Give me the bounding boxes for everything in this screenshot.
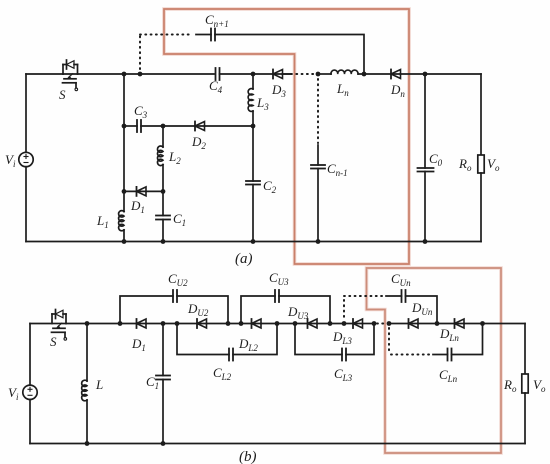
node bottom rail branch2 <box>161 239 166 244</box>
node at CU3 down leg <box>328 321 333 326</box>
wire: dotted gap on main rail <box>377 323 387 325</box>
inductor L1 <box>119 211 124 231</box>
C3 row: wire from branch1 <box>124 125 137 127</box>
wire: resistor to bottom rail (b) <box>524 393 526 444</box>
diode D1 row: wire <box>124 190 146 192</box>
capacitor Cn-1 <box>311 165 325 169</box>
branch 4 (a): dotted drop from junction <box>317 79 319 143</box>
capacitor CL3 <box>342 349 346 361</box>
capacitor C1 <box>156 216 170 220</box>
diode DL3 <box>353 319 363 328</box>
wire: L1 to bottom rail <box>123 230 125 242</box>
node at Cn+1 drop on top rail <box>362 72 367 77</box>
wire: top rail left segment (a) <box>26 73 63 75</box>
node at C0 branch top <box>423 72 428 77</box>
node at D1 tap <box>122 189 127 194</box>
branch 5 (a): C0 leg <box>424 74 426 168</box>
capacitor CL3 loop: dropper <box>295 324 342 355</box>
svg-text:L: L <box>95 377 103 392</box>
branch 2 (a): stub below C3 node <box>162 126 164 147</box>
wire: bottom rail (b) <box>30 443 525 445</box>
wire: C2 to bottom rail <box>252 185 254 242</box>
wire: solid stub into Cn+1 <box>196 34 211 36</box>
wire: C3 to L2 node <box>141 125 205 127</box>
wire: top rail Dn to right corner <box>401 73 482 75</box>
capacitor CUn <box>402 290 406 302</box>
node at L branch <box>85 321 90 326</box>
wire: CLn to up leg <box>452 324 483 355</box>
capacitor CU2 <box>173 290 177 302</box>
wire: CL2 to up leg <box>233 324 277 355</box>
diode D2 <box>195 122 205 131</box>
node bottom rail branch3 <box>251 239 256 244</box>
wire: stub into Cn-1 <box>317 145 319 165</box>
transistor S (b) <box>52 310 67 341</box>
diode DL2 <box>252 319 262 328</box>
wire: Cn-1 to bottom rail <box>317 169 319 242</box>
diode DLn <box>455 319 465 328</box>
wire: L to bottom rail <box>86 400 88 444</box>
capacitor CU3 <box>275 290 279 302</box>
wire: dotted continuation after D3 <box>291 73 315 75</box>
capacitor C2 <box>246 181 260 185</box>
red highlight box (b) <box>367 268 502 453</box>
wire: DLn to output corner <box>464 323 525 325</box>
wire: Cn+1 to top rail drop <box>215 35 364 75</box>
wire: dotted riser at node 344 <box>343 300 345 320</box>
diode Dn <box>391 70 401 79</box>
node at dotted riser <box>342 321 347 326</box>
diode D1 (a) <box>137 187 164 196</box>
wire: junction to DUn <box>389 323 418 325</box>
wire: bottom rail (a) <box>26 241 481 243</box>
voltage source Vi (b) <box>23 324 37 444</box>
capacitor CU2 loop: riser <box>120 296 173 324</box>
wire: CU3 to down leg <box>279 296 330 324</box>
node at CL2 dropper <box>175 321 180 326</box>
wire: main rail left (b) <box>30 323 51 325</box>
node bottom rail at L <box>85 441 90 446</box>
resistor Ro (b) <box>522 374 528 393</box>
inductor Ln <box>331 70 358 74</box>
inductor L <box>82 380 87 401</box>
svg-text:S: S <box>59 87 66 102</box>
wire: junction to Ln <box>318 73 331 75</box>
node on top rail at branch L3 <box>251 72 256 77</box>
wire: Ln to Dn with node at Cn+1 drop <box>358 73 400 75</box>
node on top rail at branch 1 <box>122 72 127 77</box>
capacitor Cn+1 <box>211 29 215 41</box>
svg-text:(a): (a) <box>235 251 253 267</box>
capacitor CLn <box>448 349 452 361</box>
wire: CUn to down leg <box>406 296 438 324</box>
node at CL2 right leg <box>275 321 280 326</box>
node junction dotted cell (a) <box>316 72 321 77</box>
inductor L branch (b): stub <box>86 324 88 382</box>
wire: DUn to DLn <box>418 323 464 325</box>
diode D3 <box>273 70 290 79</box>
wire: top rail C4 to D3 (a) <box>220 73 291 75</box>
wire: DU3 to DL3 <box>317 323 363 325</box>
wire: D1 to DU2 (b) <box>146 323 207 325</box>
node bottom rail at C1 (b) <box>161 441 166 446</box>
node at L2 top <box>161 124 166 129</box>
diode D1 (b) <box>137 319 147 328</box>
wire: DL2 to DU3 <box>261 323 317 325</box>
node at CU3 riser <box>239 321 244 326</box>
wire: C0 to bottom rail <box>424 172 426 242</box>
node bottom rail branch4 <box>316 239 321 244</box>
wire: resistor to bottom rail (a) <box>480 173 482 242</box>
node at CUn down leg <box>435 321 440 326</box>
capacitor C1 branch (b): stub <box>162 324 164 376</box>
node at CL3 dropper <box>293 321 298 326</box>
node at C1 branch (b) <box>161 321 166 326</box>
load leg (a): wire down to resistor <box>480 74 482 155</box>
inductor L3 <box>248 89 253 112</box>
node at D2 row <box>251 124 256 129</box>
wire: top rail from switch to C4 (a) <box>78 73 215 75</box>
voltage source Vi (a) <box>19 74 33 242</box>
node at CU2 riser <box>118 321 123 326</box>
branch 1 (a): wire from top rail down <box>123 74 125 212</box>
node bottom rail branch1 <box>122 239 127 244</box>
load leg (b): wire down to resistor <box>524 324 526 375</box>
capacitor CL2 <box>229 349 233 361</box>
resistor Ro (a) <box>478 155 484 173</box>
capacitor Cn+1 branch: dotted riser <box>139 35 141 70</box>
diode DUn <box>409 319 419 328</box>
capacitor C1 (b) <box>156 376 170 380</box>
wire: C1 to bottom rail (b) <box>162 380 164 444</box>
capacitor CL2 loop: dropper <box>177 324 229 355</box>
svg-text:(b): (b) <box>239 449 257 464</box>
wire: CLn bottom row solid <box>433 354 448 356</box>
wire: L2 to C1 <box>162 165 164 216</box>
branch 3 (a): from top rail down to L3 <box>252 74 254 89</box>
node at D1 right <box>161 189 166 194</box>
wire: dotted top row continuation <box>344 295 384 297</box>
node at CL3 right leg <box>372 321 377 326</box>
wire: CL3 to up leg <box>346 324 374 355</box>
node on top rail at Cn+1 tap <box>138 72 143 77</box>
capacitor C3 <box>137 120 141 132</box>
capacitor C0 <box>418 168 434 172</box>
red highlight box (a) <box>164 9 409 264</box>
wire: D2 to branch 3 <box>205 125 254 127</box>
node at CU2 down leg <box>226 321 231 326</box>
wire: L3 to C2 <box>252 111 254 181</box>
svg-text:S: S <box>50 334 57 349</box>
wire: main rail from switch to D1 (b) <box>66 323 146 325</box>
wire: DU2 to DL2 <box>207 323 262 325</box>
wire: dotted horizontal to Cn+1 <box>140 34 193 36</box>
diode DU3 <box>308 319 318 328</box>
wire: dotted bottom row continuation <box>391 354 431 356</box>
transistor S (MOSFET with body diode) <box>63 60 78 91</box>
node at dotted junction (b) <box>387 321 392 326</box>
node at CLn right leg <box>480 321 485 326</box>
wire: CU2 to down leg <box>177 296 228 324</box>
diode DU2 <box>197 319 207 328</box>
wire: CUn top row solid <box>386 295 402 297</box>
wire: C1 to bottom rail <box>162 220 164 242</box>
inductor L2 <box>157 146 163 166</box>
node bottom rail C0 <box>423 239 428 244</box>
node at C3 tap <box>122 124 127 129</box>
wire: DL3 to CL3 node <box>363 323 375 325</box>
capacitor C4 <box>216 68 220 80</box>
wire: dotted dropper at junction (b) <box>388 328 390 352</box>
capacitor CU3 loop: riser <box>241 296 275 324</box>
